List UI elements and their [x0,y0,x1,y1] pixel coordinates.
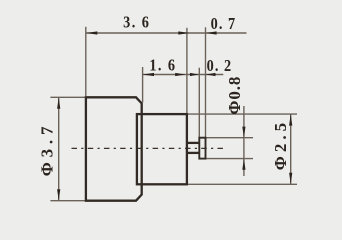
arrow 0.2 right [206,73,216,76]
arrow 0.7 right [206,31,217,34]
svg-text:Φ3.7: Φ3.7 [38,122,57,177]
extension line body top for phi 3.7 [50,96,85,98]
dimension line phi 3.7 vertical [58,97,60,200]
main body outline with chamfered right corners [86,97,142,200]
arrow phi 2.5 bottom [289,173,292,184]
pin neck top [187,142,199,144]
arrow phi 2.5 top [289,114,292,125]
dimension line for 3.6 and 0.7 [86,32,247,34]
extension line cylinder top for phi 2.5 [187,113,297,115]
svg-text:0. 7: 0. 7 [211,15,236,33]
cylinder outline [137,114,187,184]
arrow phi 3.7 top [57,98,60,109]
extension line above cylinder right edge [186,28,188,114]
arrow phi 0.8 bottom [242,159,245,170]
extension line above body left edge [85,27,87,96]
svg-text:Φ2.5: Φ2.5 [271,119,290,170]
svg-text:Φ0.8: Φ0.8 [225,76,244,115]
extension line pin top for phi 0.8 [206,137,254,139]
svg-text:3. 6: 3. 6 [123,13,150,31]
arrow 1.6 left [143,73,154,76]
extension line cylinder bottom for phi 2.5 [187,183,297,185]
arrow 1.6 right [175,73,185,76]
dimension line for 1.6 and 0.2 [143,74,224,76]
dimension line phi 0.8 vertical [243,106,245,176]
centerline [72,147,224,149]
arrow phi 3.7 bottom [57,189,60,200]
dimension line phi 2.5 vertical [290,114,292,184]
extension line 1.6 left [142,67,144,103]
svg-text:1. 6: 1. 6 [149,56,176,74]
pin neck bottom [187,152,199,154]
extension line disc left edge up [198,68,200,138]
extension line disc right edge up [205,27,207,138]
arrow 3.6 right and 0.7 left combined [178,31,189,34]
pin end disc [199,138,205,159]
extension line pin bottom for phi 0.8 [206,158,254,160]
arrow phi 0.8 top [242,127,245,138]
extension line body bottom for phi 3.7 [50,200,85,202]
arrow 3.6 left [86,31,97,34]
arrow 0.2 left [190,73,199,76]
svg-text:0. 2: 0. 2 [207,57,232,75]
